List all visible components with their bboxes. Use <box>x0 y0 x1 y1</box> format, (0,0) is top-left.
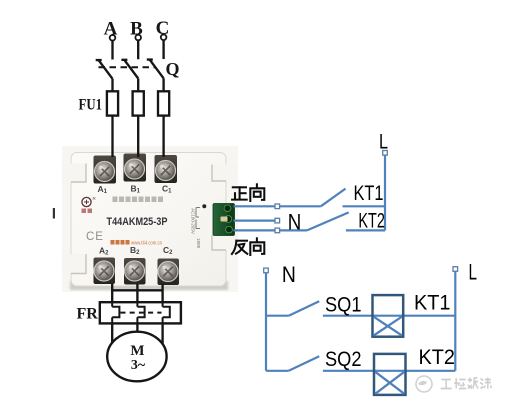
svg-text:N: N <box>282 262 296 287</box>
svg-text:KT2: KT2 <box>358 210 385 233</box>
svg-text:SQ2: SQ2 <box>325 348 362 371</box>
svg-text:AC180-265V: AC180-265V <box>191 208 196 234</box>
svg-text:N: N <box>288 210 302 235</box>
svg-text:C: C <box>156 18 170 39</box>
svg-text:SQ1: SQ1 <box>325 294 362 317</box>
svg-text:L: L <box>469 260 478 285</box>
svg-text:M: M <box>130 343 144 359</box>
svg-text:CE: CE <box>86 231 104 243</box>
svg-text:Q: Q <box>166 59 180 79</box>
svg-text:1808: 1808 <box>196 238 201 249</box>
svg-text:B: B <box>130 18 143 39</box>
svg-text:FR: FR <box>77 306 99 323</box>
svg-text:KT2: KT2 <box>419 346 456 369</box>
svg-text:KT1: KT1 <box>354 182 384 205</box>
svg-text:FU1: FU1 <box>79 97 103 114</box>
svg-text:3~: 3~ <box>131 358 146 373</box>
svg-text:T44AKM25-3P: T44AKM25-3P <box>107 216 168 228</box>
svg-text:KT1: KT1 <box>414 292 451 315</box>
svg-text:L: L <box>379 131 388 154</box>
svg-text:www.t44.com.cn: www.t44.com.cn <box>130 241 162 247</box>
svg-text:A: A <box>104 19 118 40</box>
